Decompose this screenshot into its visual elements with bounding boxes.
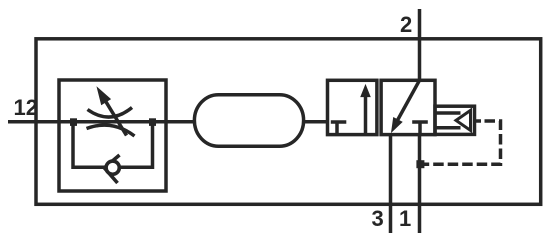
wire: port 2 line — [418, 9, 422, 80]
valve body: 3/2 valve left chamber — [328, 80, 377, 134]
wire: reservoir to valve — [304, 120, 328, 124]
wire: pilot stub from actuator — [475, 119, 482, 123]
right chamber flow path diagonal shaft — [398, 80, 420, 120]
valve body: 3/2 valve right chamber — [381, 80, 435, 134]
pilot actuator box — [435, 106, 475, 134]
left chamber blocked port T — [331, 122, 347, 135]
left chamber flow arrow shaft — [364, 96, 368, 135]
wire: port 1 line — [418, 135, 422, 233]
node: left junction dot — [70, 118, 77, 126]
right chamber flow path arrow head — [392, 118, 402, 132]
outer enclosure box — [36, 39, 541, 205]
flow control (throttle + check) component box — [59, 80, 166, 191]
node: right junction dot — [149, 118, 156, 126]
svg-text:3: 3 — [372, 206, 384, 231]
svg-text:1: 1 — [399, 206, 411, 231]
left chamber flow arrow head — [361, 86, 370, 97]
svg-text:12: 12 — [14, 95, 38, 120]
throttle valve lower arc — [87, 125, 135, 136]
throttle valve upper arc — [88, 108, 133, 118]
node: pilot junction dot on port 1 — [416, 160, 424, 168]
check valve ball — [106, 161, 119, 174]
pilot triangle — [456, 110, 471, 130]
reservoir (air accumulator capsule) — [194, 95, 303, 147]
right chamber blocked port T — [412, 122, 428, 135]
throttle adjustment arrow head — [98, 88, 111, 104]
svg-text:2: 2 — [400, 12, 412, 37]
wire: bypass right branch — [121, 122, 153, 168]
wire: port 12 input line to reservoir — [8, 120, 195, 124]
wire: bypass left branch — [73, 122, 105, 168]
pilot control line (dashed) — [424, 121, 501, 164]
check valve seat — [104, 155, 119, 183]
throttle adjustment arrow shaft — [106, 102, 127, 136]
pilot channel upper line — [435, 111, 461, 115]
wire: port 3 line — [389, 135, 393, 233]
pilot channel lower line — [435, 126, 461, 130]
